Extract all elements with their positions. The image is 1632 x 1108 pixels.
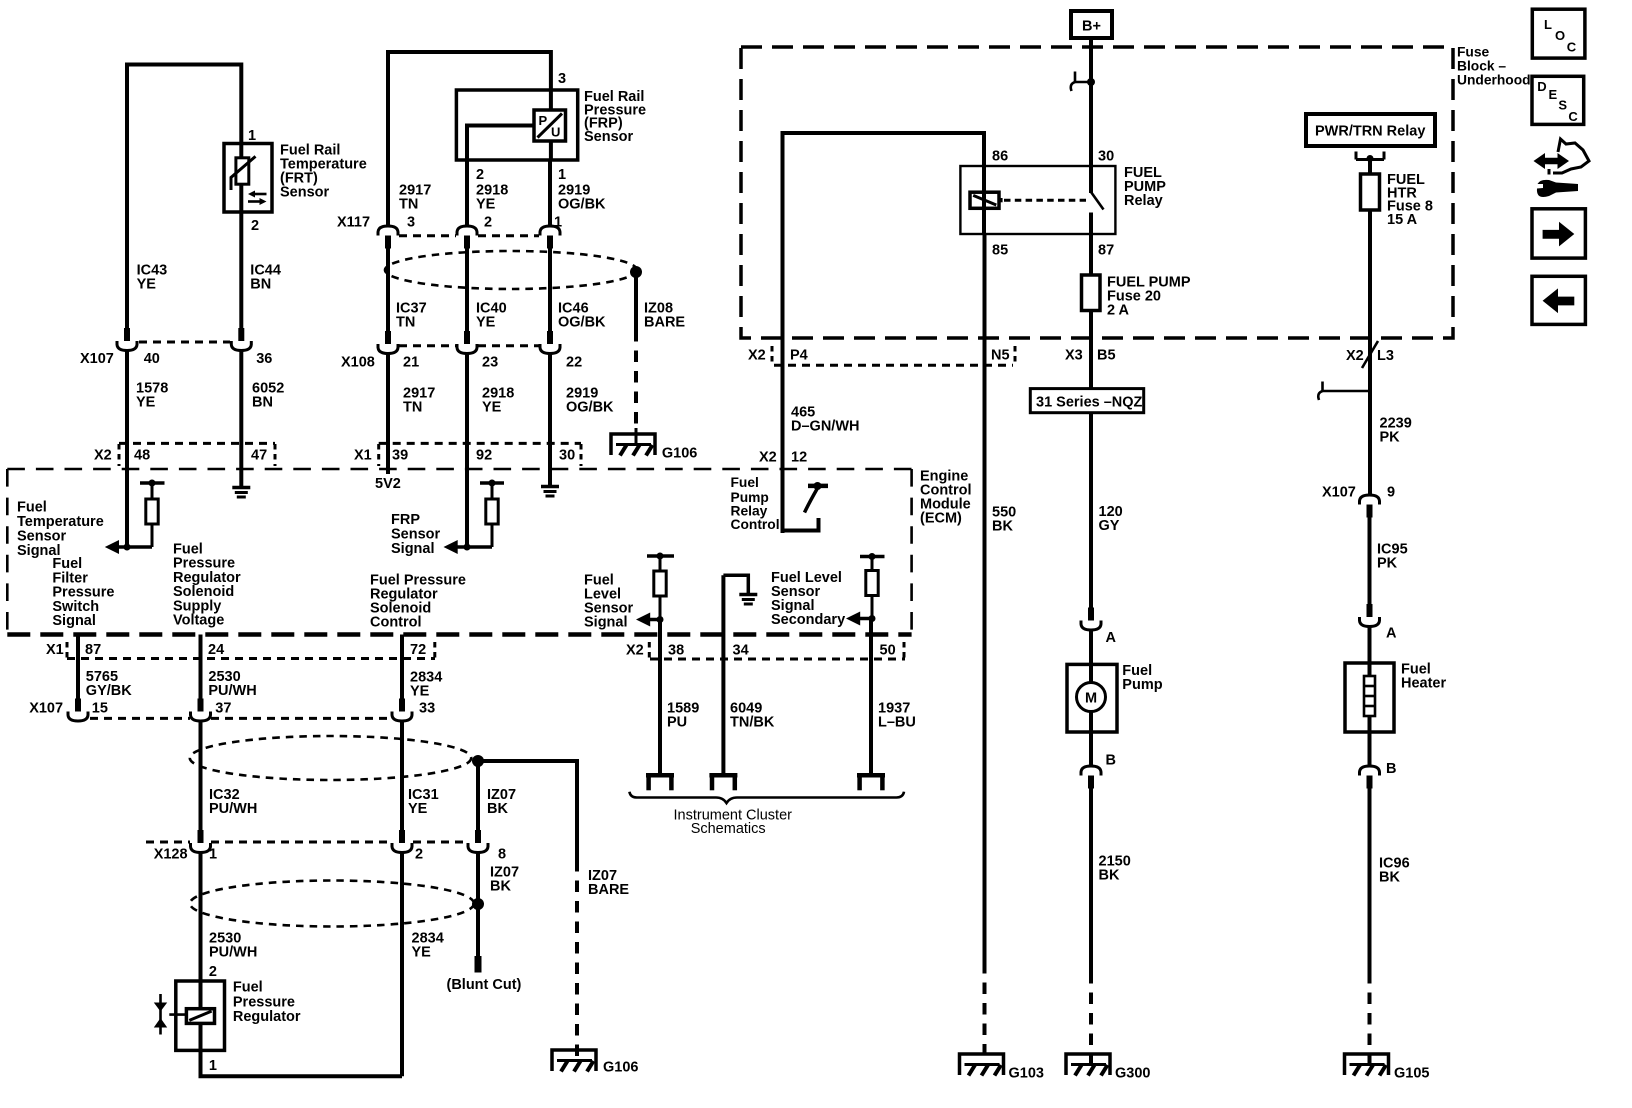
svg-text:Underhood: Underhood <box>1457 73 1531 88</box>
svg-text:36: 36 <box>256 351 272 367</box>
svg-text:15: 15 <box>92 701 108 717</box>
svg-text:B: B <box>1106 753 1116 769</box>
wire 2530 PU/WH <box>199 635 203 712</box>
wire IC32 PU/WH <box>199 721 203 843</box>
svg-text:G105: G105 <box>1394 1066 1429 1082</box>
svg-text:22: 22 <box>566 355 582 371</box>
wire 2150 BK <box>1089 776 1093 973</box>
svg-text:PU/WH: PU/WH <box>209 945 257 961</box>
svg-text:PWR/TRN Relay: PWR/TRN Relay <box>1315 124 1425 140</box>
svg-text:50: 50 <box>880 643 896 659</box>
wire IC40 YE <box>465 236 469 345</box>
svg-text:Signal: Signal <box>52 613 96 629</box>
wire heater to B <box>1368 716 1372 766</box>
wire 465 D-GN/WH P4 to ECM pin 12 <box>781 338 785 533</box>
svg-text:2: 2 <box>251 218 259 234</box>
ground G106 lower <box>552 1050 638 1076</box>
connector X1 pins 87 24 72 <box>46 642 435 659</box>
wire 5765 GY/BK <box>76 635 80 712</box>
connector X2 pins 48 47 <box>94 443 275 466</box>
ground G106 upper <box>611 434 697 462</box>
wire pin85 down to N5 <box>983 234 987 962</box>
connector X3 B5 labels <box>1065 348 1116 364</box>
wire 6052 BN <box>239 351 243 487</box>
svg-text:TN: TN <box>399 197 418 213</box>
ground at ECM pin 30 <box>541 487 559 497</box>
icon next arrow <box>1532 209 1585 258</box>
svg-text:X128: X128 <box>154 847 188 863</box>
svg-text:L: L <box>1544 17 1552 32</box>
wire B+ to relay pin 30 <box>1089 38 1093 193</box>
icon shortcut arrows and wrench <box>1534 139 1590 197</box>
svg-text:S: S <box>1558 98 1567 113</box>
svg-text:1: 1 <box>209 847 217 863</box>
svg-text:BK: BK <box>992 519 1013 535</box>
wire 2834 YE lower <box>400 853 404 1077</box>
wire IC31 YE <box>400 721 404 843</box>
svg-text:23: 23 <box>482 355 498 371</box>
wire 2918 YE lower <box>465 354 469 548</box>
svg-text:BK: BK <box>1099 868 1120 884</box>
svg-text:X117: X117 <box>337 215 370 231</box>
wire IC95 PK <box>1368 505 1372 618</box>
harness loop upper IZ07 <box>190 736 471 780</box>
resistor fuel temperature signal pull-up <box>140 480 165 548</box>
svg-text:X1: X1 <box>354 448 372 464</box>
svg-text:GY: GY <box>1099 518 1120 534</box>
svg-text:OG/BK: OG/BK <box>566 400 614 416</box>
svg-text:M: M <box>1085 691 1097 707</box>
connector X2 L3 <box>1346 341 1394 368</box>
wire IZ07 BK to blunt cut <box>476 853 480 959</box>
wire 1578 YE <box>125 351 129 548</box>
svg-text:40: 40 <box>144 351 160 367</box>
svg-text:X2: X2 <box>748 348 766 364</box>
connector B fuel pump <box>1081 753 1116 789</box>
svg-text:E: E <box>1549 87 1558 102</box>
svg-text:Sensor: Sensor <box>584 129 634 145</box>
icon back arrow <box>1532 276 1585 324</box>
svg-text:Schematics: Schematics <box>691 821 766 837</box>
bus bracket under PWR/TRN relay <box>1356 152 1384 163</box>
wire 2919 OG/BK lower <box>548 354 552 486</box>
svg-text:YE: YE <box>137 277 157 293</box>
svg-text:Signal: Signal <box>391 541 435 557</box>
svg-text:N5: N5 <box>991 348 1010 364</box>
sensor B1: Fuel Rail Temperature (FRT) Sensor <box>224 144 272 213</box>
svg-text:72: 72 <box>410 642 426 658</box>
svg-text:L3: L3 <box>1377 348 1394 364</box>
heater HTR1: Fuel Heater <box>1345 662 1446 733</box>
connector X117 pins 3 2 1 <box>337 215 562 249</box>
svg-text:Pump: Pump <box>1122 677 1162 693</box>
svg-text:Control: Control <box>370 615 422 631</box>
svg-text:15 A: 15 A <box>1387 212 1418 228</box>
svg-text:92: 92 <box>476 448 492 464</box>
svg-text:O: O <box>1555 28 1565 43</box>
ECM box dashed borders <box>7 469 911 635</box>
connector X2 pins 38 34 50 <box>626 642 905 659</box>
motor M1: Fuel Pump <box>1067 663 1163 732</box>
svg-text:YE: YE <box>476 197 496 213</box>
svg-text:1: 1 <box>558 167 566 183</box>
wire 2150 dashed tail <box>1089 972 1093 1065</box>
svg-text:Regulator: Regulator <box>233 1009 301 1025</box>
svg-text:8: 8 <box>498 847 506 863</box>
wire FRT sensor top loop <box>127 65 241 342</box>
svg-text:Voltage: Voltage <box>173 613 224 629</box>
wire A to heater <box>1368 627 1372 677</box>
svg-text:X107: X107 <box>1322 485 1356 501</box>
svg-text:X3: X3 <box>1065 348 1083 364</box>
svg-text:G103: G103 <box>1009 1066 1044 1082</box>
connector A fuel pump <box>1081 608 1117 647</box>
svg-text:X2: X2 <box>759 450 777 466</box>
connector A fuel heater <box>1360 604 1398 642</box>
svg-text:Signal: Signal <box>584 615 628 631</box>
wire relay pin86 over to P4 drop <box>783 133 985 338</box>
wire IC44 BN <box>239 212 243 341</box>
solenoid FPR: Fuel Pressure Regulator <box>154 981 225 1050</box>
harness loop lower IZ07 <box>190 881 474 927</box>
svg-text:C: C <box>1567 40 1577 55</box>
svg-text:48: 48 <box>134 448 150 464</box>
svg-text:TN: TN <box>403 400 422 416</box>
svg-text:Fuel: Fuel <box>731 475 759 490</box>
svg-text:B+: B+ <box>1082 19 1101 35</box>
node fuel temperature sensor signal arrow <box>105 540 152 554</box>
svg-text:YE: YE <box>412 945 432 961</box>
fusible link symbol on 2239 wire <box>1318 382 1370 401</box>
svg-text:PU/WH: PU/WH <box>209 801 257 817</box>
svg-text:Fuse: Fuse <box>1457 45 1490 60</box>
node fuel level secondary arrow <box>846 612 876 626</box>
svg-text:12: 12 <box>791 450 807 466</box>
wire IC46 OG/BK <box>548 236 552 345</box>
connector X128 pins 1 2 8 <box>146 830 506 863</box>
svg-text:Fuel: Fuel <box>233 980 263 996</box>
connector X108 pins 21 23 22 <box>341 331 582 371</box>
svg-text:38: 38 <box>668 643 684 659</box>
svg-text:X2: X2 <box>94 448 112 464</box>
fuse F8: FUEL HTR Fuse <box>1361 159 1380 495</box>
svg-text:L–BU: L–BU <box>878 715 916 731</box>
svg-text:(Blunt Cut): (Blunt Cut) <box>447 977 522 993</box>
fusible link symbol at B+ feed <box>1071 72 1095 92</box>
svg-text:BK: BK <box>487 801 508 817</box>
svg-text:A: A <box>1386 626 1397 642</box>
node FRP sensor signal arrow <box>444 540 493 554</box>
svg-text:YE: YE <box>482 400 502 416</box>
terminal instrument cluster 1937 <box>857 775 885 790</box>
node fuel level sensor signal arrow <box>636 613 664 627</box>
svg-text:P4: P4 <box>790 348 808 364</box>
relay K: FUEL PUMP Relay box <box>960 166 1115 234</box>
connector X1 pins 39 92 30 <box>354 443 581 466</box>
wire A to pump <box>1089 630 1093 683</box>
svg-text:TN: TN <box>396 315 415 331</box>
wire 1937 L-BU <box>869 619 873 776</box>
svg-text:A: A <box>1106 630 1117 646</box>
relay switch blade <box>1091 192 1104 210</box>
svg-text:30: 30 <box>559 448 575 464</box>
svg-text:PU: PU <box>667 715 687 731</box>
svg-text:Block –: Block – <box>1457 59 1506 74</box>
svg-text:YE: YE <box>410 684 430 700</box>
splice junction IZ08 <box>630 266 642 278</box>
svg-text:2: 2 <box>415 847 423 863</box>
svg-text:1: 1 <box>554 215 562 231</box>
svg-text:2: 2 <box>209 964 217 980</box>
wire 550 BK dashed tail to G103 <box>983 962 987 1065</box>
wire 1589 PU <box>658 620 662 776</box>
svg-text:Control: Control <box>731 517 780 532</box>
svg-text:X2: X2 <box>626 643 644 659</box>
svg-text:X108: X108 <box>341 355 375 371</box>
svg-text:OG/BK: OG/BK <box>558 315 606 331</box>
svg-text:30: 30 <box>1098 149 1114 165</box>
svg-text:24: 24 <box>208 642 224 658</box>
relay coil <box>970 192 1003 208</box>
svg-text:3: 3 <box>558 71 566 87</box>
svg-text:G106: G106 <box>662 446 697 462</box>
svg-text:87: 87 <box>1098 243 1114 259</box>
svg-text:39: 39 <box>392 448 408 464</box>
svg-text:47: 47 <box>251 448 267 464</box>
svg-text:34: 34 <box>733 643 749 659</box>
wire 2918 YE upper <box>465 160 469 226</box>
ground at ECM pin 47 <box>232 488 250 498</box>
wire IC96 dashed tail <box>1368 972 1372 1065</box>
wire IC96 BK <box>1368 776 1372 973</box>
connector X107 pins 40 36 <box>80 328 272 367</box>
svg-text:BARE: BARE <box>588 882 629 898</box>
svg-text:5V2: 5V2 <box>375 476 401 492</box>
svg-text:OG/BK: OG/BK <box>558 197 606 213</box>
svg-text:(ECM): (ECM) <box>920 511 962 527</box>
svg-text:BN: BN <box>252 395 273 411</box>
svg-text:PU/WH: PU/WH <box>208 683 256 699</box>
svg-text:Relay: Relay <box>1124 193 1163 209</box>
wire 2919 OG/BK upper <box>548 160 552 226</box>
wire IC37 TN <box>386 236 390 345</box>
svg-text:TN/BK: TN/BK <box>730 715 775 731</box>
relay coil-contact dashed link <box>1004 199 1086 202</box>
svg-text:2 A: 2 A <box>1107 303 1130 319</box>
svg-text:C: C <box>1568 109 1578 124</box>
ground inside ECM pin 34 <box>723 575 757 604</box>
ground G300 <box>1066 1054 1150 1082</box>
svg-text:B5: B5 <box>1097 348 1116 364</box>
svg-text:YE: YE <box>476 315 496 331</box>
svg-text:BK: BK <box>490 879 511 895</box>
splice junction IZ07 upper <box>472 755 484 767</box>
svg-text:BARE: BARE <box>644 315 685 331</box>
wire IZ08 BARE <box>634 272 638 330</box>
connector X107 pin 9 <box>1322 485 1395 518</box>
svg-text:X107: X107 <box>29 701 63 717</box>
fuel pump relay control driver <box>783 482 829 531</box>
svg-text:U: U <box>551 125 560 140</box>
svg-text:2: 2 <box>484 215 492 231</box>
connector B fuel heater <box>1360 761 1397 789</box>
wire FRP sensor top loop <box>388 52 551 226</box>
wire regulator pin 1 loop to 2834 YE <box>201 1050 403 1076</box>
node B+ <box>1071 11 1112 38</box>
svg-text:D–GN/WH: D–GN/WH <box>791 419 859 435</box>
connector X107 pins 15 37 33 <box>29 699 435 722</box>
svg-text:33: 33 <box>419 701 435 717</box>
svg-text:21: 21 <box>403 355 419 371</box>
svg-text:B: B <box>1386 761 1396 777</box>
wire IZ07 BK upper <box>476 761 480 843</box>
icon LOC <box>1532 9 1585 58</box>
svg-text:GY/BK: GY/BK <box>86 683 132 699</box>
svg-text:G106: G106 <box>603 1060 638 1076</box>
sensor B2: Fuel Rail Pressure (FRP) Sensor <box>456 90 577 160</box>
svg-text:9: 9 <box>1387 485 1395 501</box>
terminal instrument cluster 1589 <box>646 775 674 790</box>
relay K2 label box PWR/TRN Relay <box>1306 114 1435 146</box>
svg-text:86: 86 <box>992 149 1008 165</box>
svg-text:3: 3 <box>407 215 415 231</box>
ground G105 <box>1345 1054 1430 1082</box>
icon DESC <box>1532 76 1584 124</box>
brace instrument cluster <box>629 792 904 803</box>
svg-text:37: 37 <box>215 701 231 717</box>
resistor FRP sensor signal pull-up <box>480 480 504 548</box>
connector X2 P4 / N5 row <box>748 346 1015 366</box>
svg-text:Sensor: Sensor <box>280 185 330 201</box>
wire pump to B <box>1089 712 1093 767</box>
svg-text:X2: X2 <box>1346 348 1364 364</box>
svg-text:1: 1 <box>209 1058 217 1074</box>
wire 2917 TN lower <box>386 354 390 475</box>
connector X2 pin 12 <box>759 450 807 466</box>
wire IZ07 BARE branch <box>478 761 577 860</box>
svg-text:Heater: Heater <box>1401 676 1446 692</box>
terminal instrument cluster 6049 <box>709 775 737 790</box>
wire 2834 YE <box>400 635 404 712</box>
svg-text:PK: PK <box>1377 556 1398 572</box>
fuse block underhood dashed box <box>741 47 1453 338</box>
label box 31 Series -NQZ <box>1030 389 1143 413</box>
svg-text:85: 85 <box>992 243 1008 259</box>
svg-text:Secondary: Secondary <box>771 612 845 628</box>
ground G103 <box>960 1054 1044 1082</box>
svg-text:2: 2 <box>476 167 484 183</box>
svg-text:YE: YE <box>136 395 156 411</box>
svg-text:BK: BK <box>1379 870 1400 886</box>
svg-text:BN: BN <box>250 277 271 293</box>
relay pin stub 87 <box>1089 213 1093 235</box>
svg-text:87: 87 <box>85 642 101 658</box>
splice junction IZ07 lower <box>472 898 484 910</box>
wire 2530 PU/WH lower <box>199 853 203 982</box>
svg-text:P: P <box>539 113 548 128</box>
svg-text:1: 1 <box>248 128 256 144</box>
svg-text:X107: X107 <box>80 351 114 367</box>
harness loop X117 <box>385 251 637 289</box>
svg-text:D: D <box>1537 79 1546 94</box>
svg-text:G300: G300 <box>1115 1066 1150 1082</box>
wire 6049 TN/BK <box>721 575 725 775</box>
fuse F20: FUEL PUMP Fuse <box>1082 234 1101 389</box>
svg-text:31 Series –NQZ: 31 Series –NQZ <box>1036 395 1143 411</box>
resistor fuel level secondary pull-up <box>860 553 885 619</box>
resistor fuel level sensor signal pull-up <box>647 553 674 620</box>
svg-text:X1: X1 <box>46 642 64 658</box>
svg-text:PK: PK <box>1380 430 1401 446</box>
svg-text:YE: YE <box>408 801 428 817</box>
wire 120 GY <box>1089 413 1093 621</box>
